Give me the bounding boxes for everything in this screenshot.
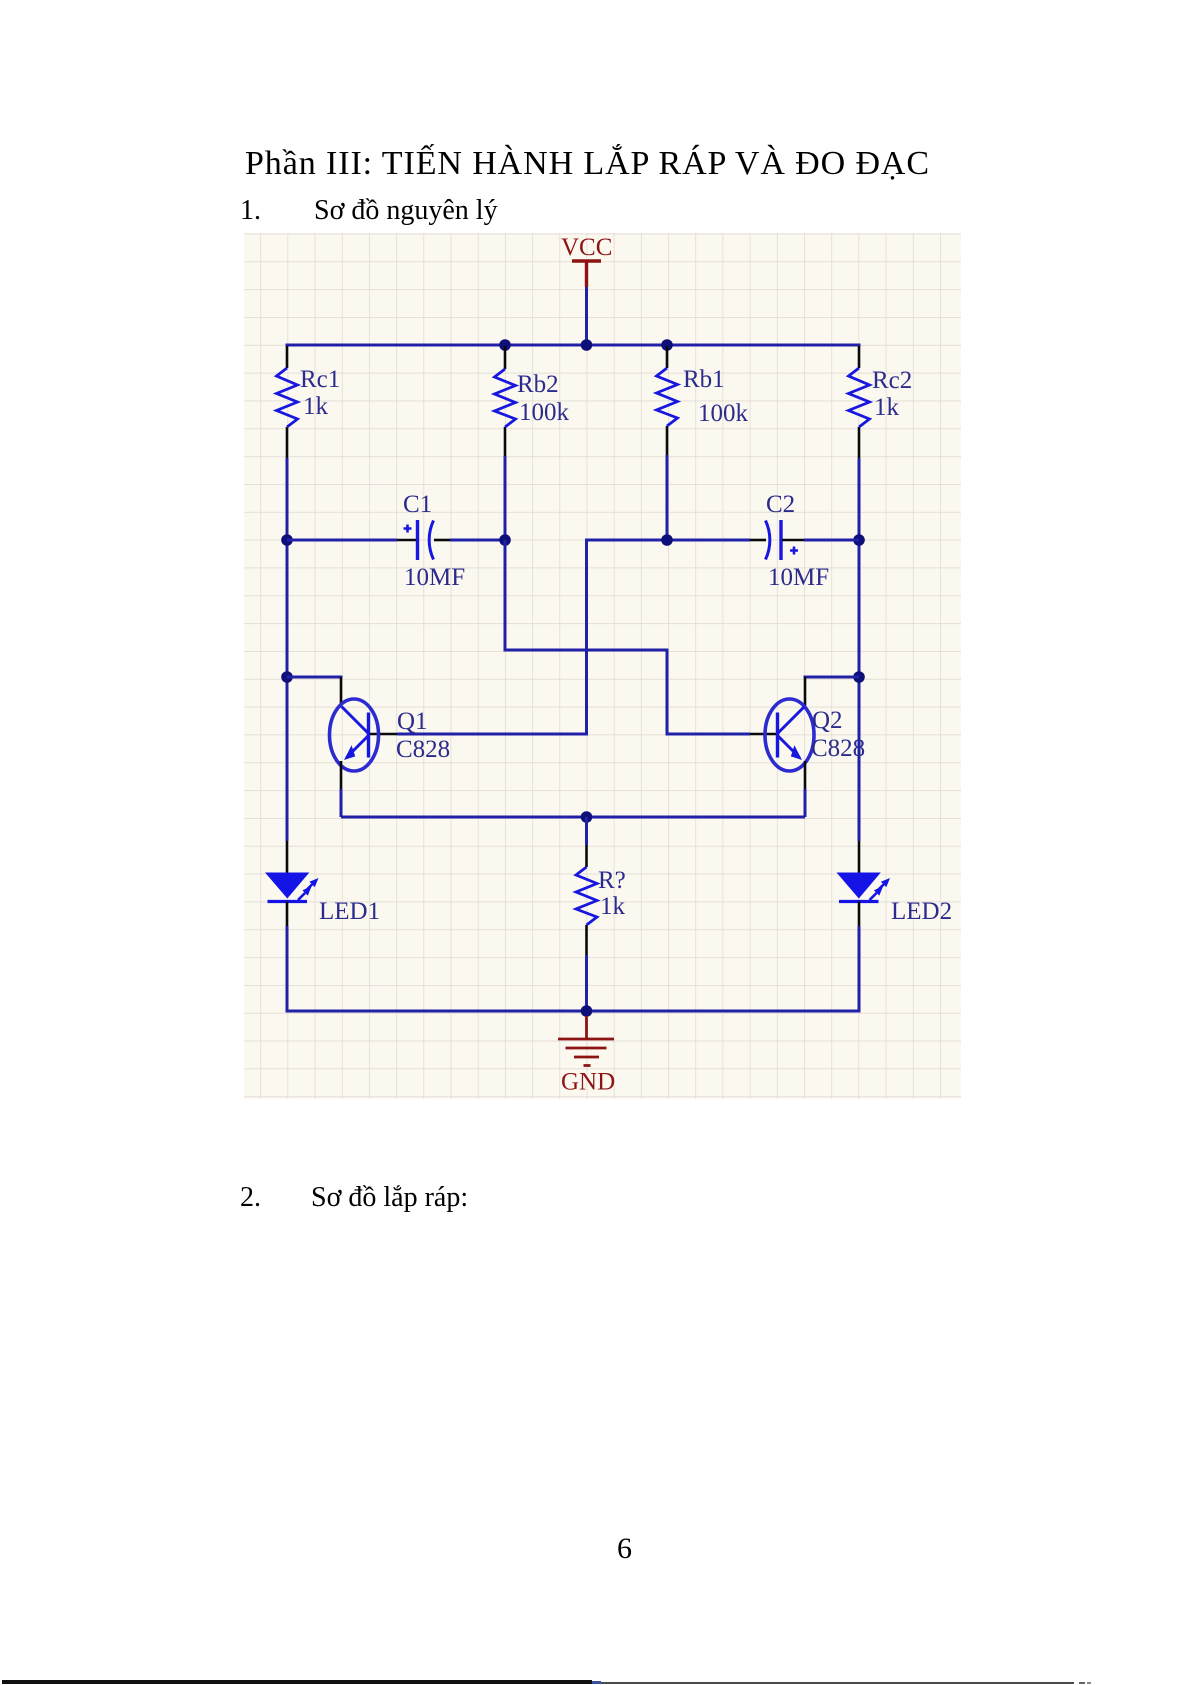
wire bottom rail [287, 1010, 859, 1012]
wire Rb1 bottom [666, 455, 669, 540]
ground GND [558, 1016, 615, 1096]
wire VCC stub to top rail [585, 287, 588, 345]
node right rail at C2 row [853, 534, 865, 546]
wire LED1 to bottom rail [286, 926, 289, 1011]
wire R? top [585, 817, 588, 845]
wire top rail [287, 345, 859, 347]
wire C2 row to Q1 base (net B) [397, 540, 750, 734]
schematic background [244, 233, 961, 1099]
svg-text:1k: 1k [874, 394, 900, 421]
wire C1 left [287, 539, 397, 542]
node emitter rail at R? [581, 811, 593, 823]
wire emitter rail [341, 816, 805, 819]
resistor Rb1 [657, 368, 678, 426]
resistor Rc1 [277, 368, 298, 427]
pin Q1 base [369, 733, 397, 736]
LED2 [837, 873, 891, 902]
svg-text:1k: 1k [600, 893, 626, 920]
bottom image edge: thick black bar [2, 1680, 592, 1684]
capacitor C1 [404, 520, 434, 560]
resistor R? [576, 867, 597, 925]
resistor Rc2 [849, 368, 870, 427]
pin Q2 collector [804, 677, 807, 706]
wire R? bottom [585, 955, 588, 1011]
wire C1 right to Rb2 [450, 539, 505, 542]
svg-text:VCC: VCC [561, 234, 612, 261]
bottom edge colored pixels [592, 1681, 601, 1684]
node junction top rail at VCC [581, 339, 593, 351]
svg-text:1k: 1k [303, 393, 329, 420]
pin Q2 emitter [804, 761, 807, 789]
node left rail at Q1 collector [281, 671, 293, 683]
svg-text:LED1: LED1 [319, 898, 380, 925]
pin Q1 emitter [340, 761, 343, 789]
wire left rail [286, 458, 289, 841]
transistor Q2 [765, 699, 814, 771]
LED1 [265, 873, 319, 902]
svg-text:Q1: Q1 [397, 708, 428, 735]
pin C2 left [750, 539, 766, 542]
node bottom rail at GND [581, 1005, 593, 1017]
resistor Rc1 pins [286, 346, 289, 458]
page number 6 [617, 1532, 632, 1566]
resistor Rb1 pins [666, 346, 669, 455]
svg-text:C2: C2 [766, 491, 795, 518]
svg-text:Q2: Q2 [812, 707, 843, 734]
resistor Rb2 pins [504, 346, 507, 456]
pin Q2 base [750, 733, 776, 736]
svg-text:C1: C1 [403, 491, 432, 518]
pin C1 left [397, 539, 416, 542]
wire Q2 collector [805, 677, 859, 678]
wire LED2 to bottom rail [858, 926, 861, 1011]
pin C2 right [782, 539, 804, 542]
svg-text:C828: C828 [396, 736, 450, 763]
capacitor C2 [766, 520, 799, 560]
svg-text:C828: C828 [811, 735, 865, 762]
bottom edge trailing dashes [1079, 1682, 1085, 1684]
svg-text:GND: GND [561, 1069, 615, 1096]
item 1 heading [240, 195, 498, 227]
transistor Q1 [330, 699, 379, 771]
item 2 heading [240, 1182, 468, 1214]
node left rail at C1 row [281, 534, 293, 546]
pin Q1 collector [340, 677, 343, 706]
resistor Rb2 [495, 369, 516, 427]
wire Rb2/C1 to Q2 base (net A) [505, 540, 750, 734]
svg-text:Rb2: Rb2 [517, 371, 559, 398]
wire Rb2 bottom [504, 456, 507, 540]
svg-text:Rc1: Rc1 [300, 366, 340, 393]
node right rail at Q2 collector [853, 671, 865, 683]
wire Q2 emitter down [804, 789, 807, 817]
wire right rail [858, 458, 861, 841]
svg-text:Rb1: Rb1 [683, 366, 725, 393]
svg-text:10MF: 10MF [768, 564, 829, 591]
schematic panel [244, 233, 961, 1099]
resistor Rc2 pins [858, 346, 861, 458]
bottom image edge: thin gray line [601, 1682, 1074, 1684]
pin LED1 cathode [286, 902, 289, 927]
node junction top rail at Rb1 [661, 339, 673, 351]
svg-text:10MF: 10MF [404, 564, 465, 591]
pin LED2 anode [858, 841, 861, 873]
svg-text:100k: 100k [519, 399, 570, 426]
svg-text:LED2: LED2 [891, 898, 952, 925]
pin C1 right [434, 539, 450, 542]
node Rb1/C2 junction [661, 534, 673, 546]
svg-text:Rc2: Rc2 [872, 367, 912, 394]
svg-text:100k: 100k [698, 400, 749, 427]
pin LED1 anode [286, 841, 289, 873]
heading: Phan III [245, 145, 930, 183]
power port VCC [561, 234, 612, 287]
node C1/Rb2 junction [499, 534, 511, 546]
wire Q1 collector [287, 677, 341, 678]
node junction top rail at Rb2 [499, 339, 511, 351]
pin LED2 cathode [858, 902, 861, 927]
wire C2 right to right rail [804, 539, 859, 542]
svg-text:R?: R? [598, 867, 626, 894]
wire Q1 emitter down [340, 789, 343, 817]
resistor R? pins [585, 845, 588, 955]
